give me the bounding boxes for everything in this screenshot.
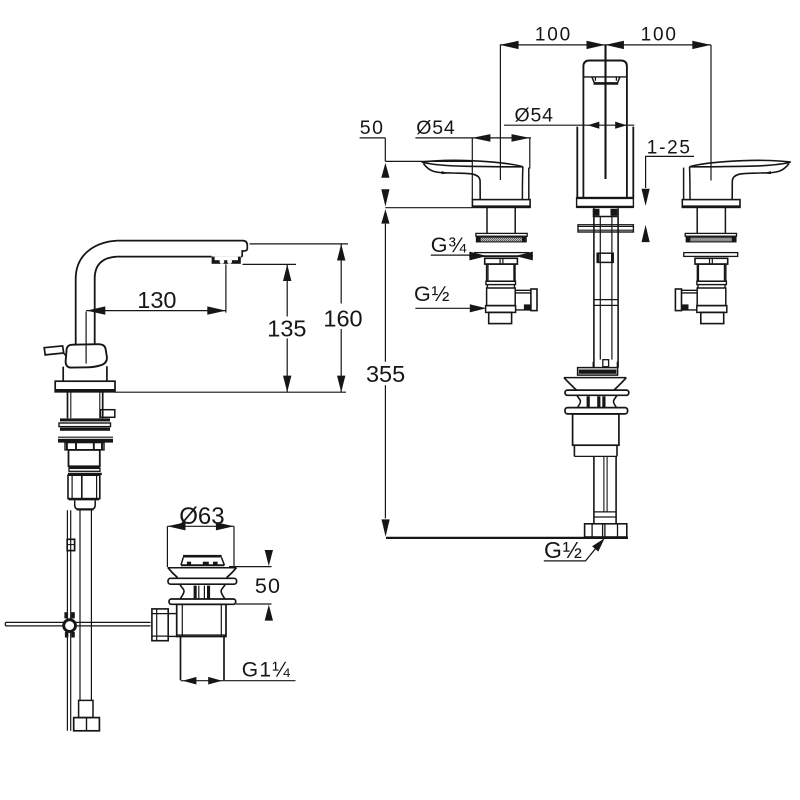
lever side face	[423, 164, 480, 200]
washer bar 1	[565, 390, 629, 395]
washer plate	[58, 436, 113, 438]
dim 100 line	[500, 44, 711, 46]
dim 135 line	[286, 264, 288, 392]
pop-up rod (vertical)	[67, 510, 70, 731]
G1 1/4 leader line	[181, 680, 296, 682]
dim 50 arrows	[381, 163, 389, 178]
ref line aerator (135 top)	[243, 263, 297, 265]
valve bottom band	[486, 306, 516, 313]
drain tube	[181, 637, 225, 681]
mounting surface line	[386, 537, 628, 539]
washer bar 2	[565, 408, 628, 414]
tailpiece	[489, 312, 512, 323]
spout flange	[577, 198, 634, 208]
dim 130 line	[86, 310, 226, 312]
right handle assembly (mirror)	[675, 160, 790, 323]
dim 1-25 leader	[645, 156, 694, 188]
hose connector	[79, 700, 93, 717]
lever right edge	[521, 167, 524, 200]
spout top cap	[583, 61, 627, 78]
dim 160 arrows	[337, 244, 345, 261]
drain body step	[574, 445, 617, 456]
center pop rod	[600, 217, 612, 360]
dim 130 arrows	[87, 306, 106, 314]
dim D54 left extensions	[472, 138, 530, 200]
dim D63 extensions	[167, 526, 234, 567]
mid with tabs	[577, 395, 581, 407]
dim G1/2 bottom leader	[544, 540, 603, 561]
side port	[515, 290, 531, 310]
nut band	[485, 258, 518, 264]
washer top bar	[476, 233, 527, 236]
left handle assembly	[422, 160, 537, 323]
dim 355 arrows	[381, 209, 389, 223]
svg-text:G½: G½	[414, 282, 450, 306]
drain flange bar 1	[168, 578, 237, 584]
bottom cap	[75, 501, 96, 510]
svg-text:G1¼: G1¼	[242, 658, 291, 681]
center big washer	[578, 225, 633, 232]
spout outlet bowl	[592, 77, 620, 83]
upper valve body	[69, 450, 100, 466]
faucet axis extension (130 dim)	[85, 312, 87, 364]
metal washer	[475, 253, 529, 257]
ball joint	[64, 612, 68, 618]
dim D63 line	[167, 525, 234, 527]
drain rod port	[152, 609, 168, 641]
spout elbow inner	[95, 257, 117, 345]
center seal (black)	[593, 209, 600, 216]
center hex nut	[597, 253, 613, 262]
dim G1/2 left leader	[415, 307, 471, 309]
valve body	[487, 288, 516, 306]
ref line lever top	[385, 160, 472, 162]
center shank	[594, 207, 618, 209]
dim G1/2 left arrow	[470, 304, 487, 312]
svg-text:50: 50	[255, 574, 281, 598]
rubber seal band	[476, 237, 526, 242]
shank	[68, 392, 103, 418]
drain mid with tabs	[180, 584, 184, 599]
dim D54 left arrows	[472, 134, 490, 142]
drain body	[573, 414, 619, 445]
deck ref line	[385, 207, 472, 209]
rod connector block	[67, 539, 74, 550]
tailpipe	[594, 456, 616, 523]
drain plug dome	[183, 555, 222, 558]
spout wide body	[577, 127, 633, 198]
drain 50 dim lines	[229, 566, 272, 568]
svg-text:1-25: 1-25	[647, 138, 692, 159]
center tube couplings	[594, 300, 618, 306]
svg-text:160: 160	[323, 305, 362, 331]
dim 160 line	[340, 244, 342, 392]
drain cup flare	[168, 567, 236, 569]
dim 1-25 arrows	[642, 189, 650, 206]
nut	[65, 443, 104, 450]
drain flange bar 2	[169, 599, 236, 604]
spout underside	[241, 256, 242, 258]
spout outline	[118, 241, 248, 257]
shank	[487, 207, 515, 233]
aerator at spout tip	[212, 257, 241, 264]
body right wall	[528, 168, 530, 200]
deck ref line left faucet	[115, 391, 346, 393]
valve block	[69, 468, 100, 471]
dim G1/2 bottom arrow	[592, 538, 605, 551]
dim 100 arrows	[500, 41, 519, 49]
dim 100 extensions	[499, 45, 501, 180]
svg-text:100: 100	[535, 25, 572, 46]
svg-text:130: 130	[137, 287, 176, 313]
dim 135 arrows	[283, 264, 291, 281]
flexible hose	[80, 510, 91, 701]
bottom hex fitting	[585, 524, 627, 537]
escutcheon flange	[472, 200, 530, 208]
svg-text:G¾: G¾	[431, 233, 468, 257]
dim D54 center arrows	[588, 122, 600, 129]
band under nut	[486, 281, 516, 284]
dim 50 leader	[360, 138, 386, 162]
rod end cap	[603, 360, 609, 367]
neck below body	[63, 366, 107, 381]
spout elbow outer	[76, 241, 118, 345]
top disc	[578, 368, 618, 376]
lever lens	[422, 160, 523, 166]
svg-text:355: 355	[366, 361, 405, 387]
hose end nut	[74, 718, 100, 731]
dim D54 left line	[415, 137, 531, 139]
dim 355 line	[384, 224, 386, 519]
neck	[487, 285, 514, 288]
escutcheon flange	[55, 381, 115, 392]
svg-text:G½: G½	[544, 537, 583, 563]
svg-text:135: 135	[267, 315, 306, 341]
drain body	[177, 604, 226, 636]
drain 50 arrows	[265, 550, 273, 566]
thread rings	[60, 418, 110, 421]
center threaded tube	[594, 209, 618, 368]
dim G3/4 arrows	[469, 252, 487, 261]
spout axis	[604, 45, 606, 179]
horizontal pop-up rod	[5, 622, 150, 626]
side tab	[100, 410, 114, 418]
dim 130 right extension	[225, 264, 227, 312]
ref line spout top (160 top)	[250, 243, 349, 245]
lever tab (side view handle)	[44, 346, 64, 355]
spout narrow body	[583, 77, 627, 198]
svg-text:Ø54: Ø54	[515, 105, 554, 127]
dim D63 arrows	[167, 522, 185, 530]
dim D54 center line	[504, 124, 634, 126]
dim G3/4 leader	[431, 254, 533, 257]
G1 1/4 arrows	[183, 677, 197, 685]
nut body	[487, 264, 515, 281]
svg-text:100: 100	[641, 25, 678, 46]
cartridge body	[66, 344, 107, 367]
svg-text:Ø54: Ø54	[416, 117, 455, 139]
drain cup flare	[564, 377, 626, 379]
svg-text:50: 50	[360, 117, 385, 139]
